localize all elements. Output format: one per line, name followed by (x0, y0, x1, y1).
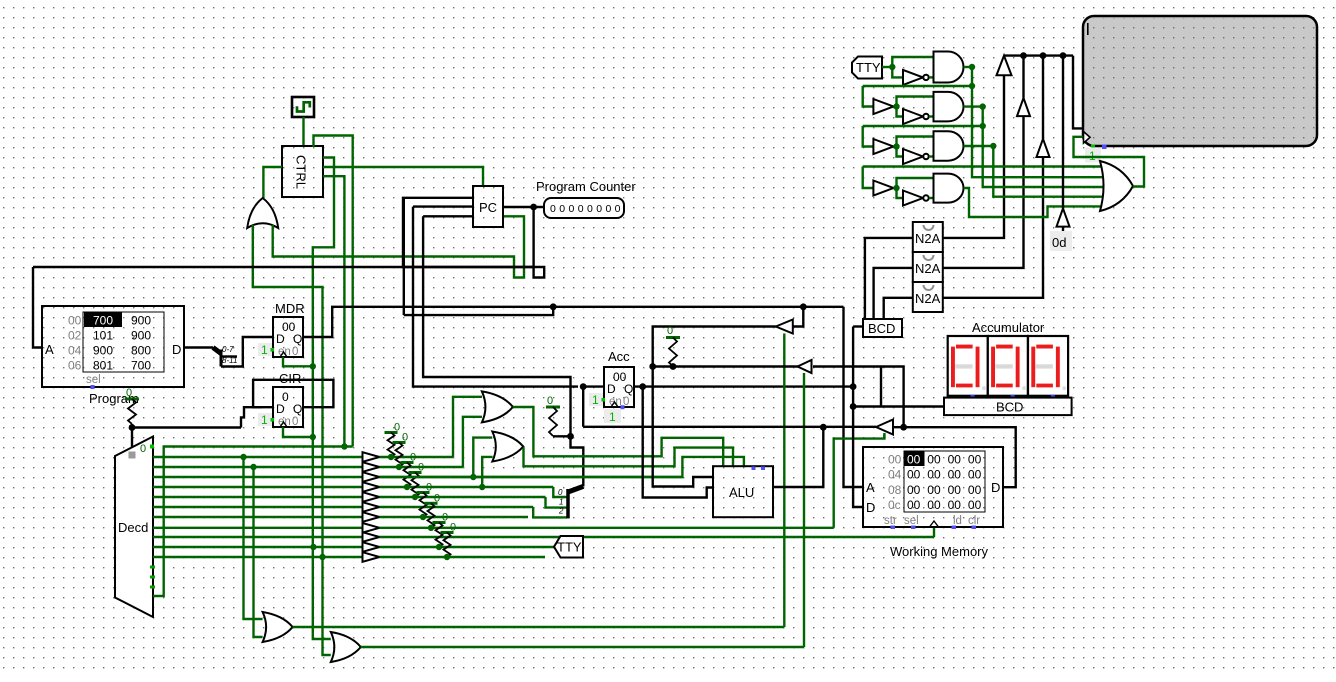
junction chain row3 (980, 123, 986, 129)
wire (412, 197, 414, 199)
junction AND3 (990, 143, 996, 149)
buffer row 10 (363, 542, 380, 552)
wire decoder row 11 left (153, 556, 363, 558)
svg-text:900: 900 (131, 314, 151, 328)
buffer row 3 (363, 472, 380, 482)
wire row477 to OR2 in1 (473, 438, 492, 477)
junction chain row2 (969, 83, 975, 89)
register CIR (273, 387, 303, 427)
subcircuit ALU (713, 466, 773, 517)
wire row477 to ALU in3 (380, 457, 744, 477)
svg-text:0: 0 (292, 346, 298, 358)
wire decoder row 1 left (153, 456, 363, 458)
not-gate N2b (903, 109, 923, 124)
svg-text:Acc: Acc (608, 349, 630, 364)
wire AND2 to OR row3 (983, 107, 1105, 187)
svg-text:sel: sel (86, 374, 101, 386)
wire decoder row 10 right (380, 546, 555, 548)
wire bus to TTY (1073, 56, 1083, 129)
svg-text:00: 00 (927, 498, 941, 512)
wire OR to CTRL left (263, 167, 282, 198)
wire TTY data bus (1004, 54, 1073, 56)
wire decoder row 1 right (380, 456, 454, 458)
wire CIR Q feedback (253, 380, 333, 407)
buffer row 6 (363, 502, 380, 512)
wire decoder row 6 left (153, 506, 363, 508)
wire BCD b1 to N2A2 (874, 268, 913, 319)
wire decoder fetch row (153, 447, 353, 597)
ROM highlighted cell (84, 313, 122, 328)
svg-text:0-7: 0-7 (222, 345, 234, 354)
wire decoder row 5 right (380, 496, 546, 498)
svg-text:00: 00 (907, 453, 921, 467)
svg-text:00: 00 (907, 468, 921, 482)
svg-text:Working Memory: Working Memory (890, 544, 989, 559)
label CIR enable value (258, 413, 272, 426)
junction row547/clockline (310, 544, 316, 550)
buffer row 2 (363, 462, 380, 472)
junction R11 (670, 363, 677, 370)
wire decoder row 3 left (153, 476, 363, 478)
and-gate A3 (934, 131, 964, 161)
controlled buffer B3 (876, 420, 893, 435)
svg-text:sel: sel (904, 515, 919, 527)
svg-text:Program Counter: Program Counter (536, 179, 636, 194)
pin dots display (971, 395, 975, 398)
wire WM line to buffer B2 (813, 367, 904, 428)
label TTY busy value (1085, 148, 1101, 163)
wire NOT1 to AND1 (929, 76, 934, 78)
junction pull R8 (436, 544, 442, 550)
junction row3 (893, 143, 899, 149)
junction row457 tap (240, 454, 246, 460)
wire into buffer row2 (863, 86, 874, 107)
junction TTY (889, 64, 895, 70)
clock component (292, 97, 314, 117)
constant 0d (1050, 231, 1072, 251)
wire program bus to CIR (132, 426, 241, 428)
wire OR2 out to ALU in2 (523, 448, 733, 467)
wire row497 to splitter bit1 (546, 497, 568, 508)
svg-text:08: 08 (888, 483, 902, 497)
wire acc input bus (583, 426, 876, 428)
wire PC D loop lower (404, 307, 553, 315)
subcircuit N2A1 (913, 222, 943, 252)
svg-text:00: 00 (948, 498, 962, 512)
or-gate U7 (331, 632, 361, 662)
junction bus T4 (1060, 52, 1067, 59)
controlled buffer B2 (798, 360, 812, 373)
wire clock to CTRL (302, 117, 304, 147)
ROM Program memory (42, 306, 184, 387)
junction ALU out / acc bus (820, 424, 827, 431)
wire AND1 out (964, 66, 973, 68)
wire buffer out row3 (893, 145, 896, 147)
svg-text:N2A: N2A (915, 291, 941, 306)
resistor R10 (549, 407, 557, 436)
wire AND3 to OR row4 (993, 146, 1104, 197)
wire TTY out (882, 66, 892, 68)
svg-text:00: 00 (968, 498, 982, 512)
wire OR5 out to TTY write (1074, 137, 1145, 187)
wire decoder row 5 left (153, 496, 363, 498)
wire B3 control stub (883, 435, 885, 439)
wire ROM D to splitter (184, 346, 213, 348)
svg-text:PC: PC (479, 200, 497, 215)
wire CTRL clockline to MDR/CIR/OR (313, 158, 334, 640)
wire row537 to WM clock riser (933, 527, 935, 537)
wire Acc Q bus (633, 385, 853, 387)
svg-text:ALU: ALU (729, 485, 754, 500)
wire (539, 546, 541, 548)
buffer row 11 (363, 552, 380, 562)
resistor pull R5 tick (409, 471, 422, 474)
svg-text:700: 700 (131, 359, 151, 373)
wire into buffer row4 (863, 167, 874, 189)
svg-text:06: 06 (68, 359, 82, 373)
svg-text:D: D (276, 402, 285, 416)
svg-text:00: 00 (927, 453, 941, 467)
wire to BCD display (853, 405, 944, 407)
junction jump bus pull (567, 433, 574, 440)
resistor pull R6 tick (417, 491, 430, 494)
decoder Decd (115, 437, 153, 618)
svg-text:00: 00 (948, 453, 962, 467)
svg-text:str: str (884, 515, 897, 527)
wire AND4 to OR row5 (964, 188, 1103, 217)
buffer row 1 (363, 452, 380, 462)
buffer row 8 (363, 523, 380, 533)
svg-text:00: 00 (968, 468, 982, 482)
svg-text:0c: 0c (888, 498, 901, 512)
resistor pull R9 (444, 533, 451, 558)
svg-text:00: 00 (927, 483, 941, 497)
subcircuit N2A3 (913, 282, 943, 312)
wire CIR clock (283, 427, 313, 437)
controlled buffer T3 (1037, 139, 1050, 157)
junction fetch/CTRL3 (341, 443, 347, 449)
svg-text:700: 700 (93, 314, 113, 328)
junction B2/B3 line (900, 424, 907, 431)
RAM clock marker (930, 521, 939, 527)
wire splitter to MDR D (221, 337, 273, 367)
wire OR7 out (361, 646, 804, 648)
svg-text:801: 801 (93, 359, 113, 373)
svg-text:A: A (45, 342, 54, 357)
pin dots ALU (752, 467, 756, 471)
wire T4 to constant (1062, 227, 1064, 232)
or-gate U4 (492, 432, 523, 462)
wire buffer B2 control (803, 373, 805, 647)
wire splitter leg 0-7 stub (221, 355, 237, 357)
svg-text:Q: Q (293, 332, 302, 346)
svg-text:900: 900 (131, 329, 151, 343)
decoder unused pins (150, 567, 155, 587)
wire to AND3 in1 (897, 137, 934, 147)
or-gate U3 (482, 391, 513, 422)
seven-segment digit 1 (948, 336, 988, 396)
wire decoder row 2 left (153, 466, 363, 468)
wire decoder row 7 right (380, 516, 529, 518)
wire resistor to decoder sel (131, 424, 133, 450)
label Acc enable value (589, 393, 603, 406)
svg-text:BCD: BCD (996, 400, 1023, 415)
junction bus T3 (1040, 52, 1047, 59)
controlled buffer T4 (1057, 208, 1070, 226)
buffer row 9 (363, 532, 380, 542)
splitter S2 (568, 486, 583, 492)
svg-text:00: 00 (968, 483, 982, 497)
svg-text:0d: 0d (1052, 235, 1066, 250)
register MDR (273, 317, 303, 357)
buffer N2a (873, 99, 893, 114)
TTY cursor (1087, 23, 1089, 35)
wire PC Q feedback hook (403, 198, 544, 278)
resistor pull R4 tick (401, 461, 414, 464)
wire decoder row 2 right (380, 466, 463, 468)
svg-text:00: 00 (907, 498, 921, 512)
not-gate N3b (903, 149, 923, 164)
svg-text:00: 00 (948, 468, 962, 482)
subcircuit N2A2 (913, 252, 943, 282)
wire NOT3b to AND3 (929, 155, 934, 157)
wire buffer out row4 (893, 187, 896, 189)
svg-text:04: 04 (888, 468, 902, 482)
svg-text:Decd: Decd (118, 520, 148, 535)
wire decoder row 9 right (380, 536, 935, 538)
RAM highlighted cell (905, 452, 925, 467)
svg-text:0: 0 (140, 443, 146, 455)
junction pull R3 (396, 464, 402, 470)
junction Acc Q feedback (639, 383, 646, 390)
junction MDR bus / PC loop (550, 303, 557, 310)
TTY clock arrow (1084, 132, 1091, 144)
wire decoder row 4 right (380, 486, 554, 488)
svg-text:CIR: CIR (279, 371, 301, 386)
label Acc clock value (604, 409, 621, 423)
or-gate U6 (263, 612, 293, 642)
junction Acc D (580, 383, 587, 390)
junction row4 (893, 185, 899, 191)
wire to NOT2b (897, 107, 904, 117)
wire Acc D branch down (582, 387, 584, 427)
TTY pin dots (1091, 145, 1095, 149)
svg-text:CTRL: CTRL (294, 155, 309, 189)
wire bus to buffer B1 (793, 307, 803, 327)
wire PC Q to probe (503, 206, 544, 208)
resistor pull R8 tick (433, 521, 446, 524)
wire PC D vertical (403, 198, 405, 315)
ROM sel pin (91, 385, 95, 389)
wire decoder row 8 right (380, 527, 834, 529)
wire decoder row 6 right (380, 506, 534, 508)
wire to CIR D (241, 407, 273, 427)
svg-text:D: D (607, 382, 616, 396)
wire chain feed row4 (863, 165, 1104, 167)
buffer row 4 (363, 482, 380, 492)
junction AND1 (969, 64, 975, 70)
splitter S1 (213, 348, 221, 354)
svg-text:Q: Q (293, 402, 302, 416)
subcircuit CTRL (282, 146, 323, 197)
junction pull R5 (412, 494, 418, 500)
wire ALU out (773, 427, 823, 487)
svg-text:A: A (866, 480, 875, 495)
buffer N3a (873, 139, 893, 154)
seven-segment digit 3 (1028, 336, 1068, 396)
register Acc (604, 367, 634, 407)
resistor pull R5 (412, 473, 419, 498)
svg-text:00: 00 (907, 483, 921, 497)
junction B1 line / pull line (649, 363, 656, 370)
wire to AND4 in1 (897, 178, 934, 188)
wire decoder row 8 left (153, 527, 363, 529)
wire row487 to OR2 in2 (482, 457, 492, 487)
wire splitter stem (571, 434, 584, 486)
or-gate U5 (TTY write) (1100, 161, 1133, 211)
svg-text:00: 00 (927, 468, 941, 482)
svg-text:clr: clr (968, 515, 980, 527)
wire AND3 out (964, 145, 994, 147)
svg-text:0: 0 (126, 387, 132, 399)
junction CIR clock (310, 434, 316, 440)
svg-text:MDR: MDR (275, 301, 305, 316)
probe Program Counter (544, 198, 624, 218)
wire into buffer row3 (863, 126, 874, 147)
or-gate U2 (to CTRL) (247, 198, 278, 228)
wire T2 up (1022, 56, 1024, 98)
wire PC pin3 stub (423, 215, 473, 217)
junction row467 tap (250, 464, 256, 470)
wire N2A1 to buffer T1 (943, 75, 1004, 238)
svg-text:00000000: 00000000 (550, 203, 624, 215)
svg-text:0: 0 (292, 416, 298, 428)
RAM Working Memory (863, 447, 1003, 527)
wire resistor R10 bottom (553, 435, 571, 437)
seven-segment digit 2 (988, 336, 1028, 396)
junction bus to buffer (800, 303, 807, 310)
resistor pull R7 (428, 503, 435, 528)
TTY display (1083, 16, 1317, 146)
decoder sel marker (129, 452, 136, 459)
junction row2 (893, 103, 899, 109)
wire NOT4b to AND4 (929, 197, 934, 199)
pin TTY output (554, 536, 583, 558)
wire row467 to OR5 in2 (254, 467, 263, 637)
resistor pull R3 (396, 443, 403, 468)
resistor R11 (669, 338, 677, 367)
wire pull line left (653, 365, 798, 367)
svg-text:D: D (991, 480, 1000, 495)
svg-text:800: 800 (131, 344, 151, 358)
svg-text:ld: ld (953, 515, 962, 527)
wire decoder row 9 left (153, 536, 363, 538)
wire N2A3 to buffer T3 (943, 157, 1043, 298)
svg-text:TTY: TTY (856, 60, 881, 75)
wire MDR clock (283, 357, 313, 366)
wire into BCD (853, 325, 863, 327)
wire NOT2b to AND2 (929, 115, 934, 117)
controlled buffer T2 (1017, 98, 1030, 116)
wire PC green loop (273, 216, 524, 277)
wire CTRL top to fetch row (314, 136, 353, 447)
label MDR enable value (258, 343, 272, 356)
resistor pull R6 (420, 493, 427, 518)
wire buffer B1 out to ALU A (653, 327, 776, 487)
junction program bus (129, 424, 136, 431)
svg-text:1: 1 (559, 498, 563, 507)
wire WM D out loop (893, 427, 1016, 487)
svg-text:1: 1 (261, 343, 268, 357)
resistor R11 tick (666, 336, 680, 339)
subcircuit BCD display driver (944, 398, 1072, 416)
and-gate A1 (934, 52, 964, 83)
svg-text:00: 00 (948, 483, 962, 497)
pin dot Acc (621, 405, 625, 409)
junction AND2 (980, 103, 986, 109)
junction row557/chain (319, 554, 325, 560)
wire to NOT1 (892, 67, 903, 77)
controlled buffer T1 (997, 56, 1012, 76)
wire N2A2 to buffer T2 (943, 116, 1024, 268)
junction pull R9 (444, 554, 450, 560)
wire decoder row 3 right (380, 476, 683, 478)
RAM pin dots (891, 526, 896, 530)
resistor R1 (128, 399, 136, 424)
svg-text:1: 1 (592, 393, 599, 407)
junction bus T2 (1020, 52, 1027, 59)
wire decoder row 10 left (153, 546, 363, 548)
svg-text:04: 04 (68, 344, 82, 358)
wire chain feed row3 (863, 125, 983, 127)
wire CTRL to PC clock (323, 167, 483, 186)
junction pull R4 (404, 484, 410, 490)
wire BCD b0 to N2A1 (865, 238, 913, 319)
wire T4 up (1062, 56, 1064, 209)
wire chain feed row2 (863, 85, 972, 87)
svg-text:1: 1 (609, 410, 616, 424)
resistor pull R3 tick (393, 441, 406, 444)
controlled buffer B1 (776, 320, 793, 334)
svg-text:900: 900 (93, 344, 113, 358)
resistor pull R2 (388, 433, 395, 458)
junction pull R2 (388, 454, 394, 460)
resistor pull R9 tick (441, 531, 454, 534)
wire buffer out row2 (893, 105, 896, 107)
resistor pull R8 (436, 523, 443, 548)
resistor pull R4 (404, 463, 411, 488)
junction BCD display feed (850, 403, 857, 410)
svg-text:N2A: N2A (915, 231, 941, 246)
svg-text:D: D (172, 342, 181, 357)
junction row477/OR2 (470, 474, 476, 480)
subcircuit BCD (863, 319, 902, 337)
svg-text:0: 0 (667, 325, 673, 337)
buffer row 5 (363, 492, 380, 502)
svg-text:00: 00 (888, 453, 902, 467)
wire PC jump-address (423, 216, 570, 436)
wire AND2 out (964, 105, 983, 107)
wire T3 up (1042, 56, 1044, 139)
wire CTRL pin3 down (323, 176, 344, 447)
not-gate N4b (903, 191, 923, 206)
buffer N4a (873, 181, 893, 196)
wire Acc Q up to BCD (852, 327, 854, 387)
wire row457 to OR5 in1 (244, 457, 263, 619)
and-gate A4 (934, 174, 964, 203)
svg-text:0: 0 (558, 488, 563, 497)
svg-text:Accumulator: Accumulator (972, 320, 1045, 335)
